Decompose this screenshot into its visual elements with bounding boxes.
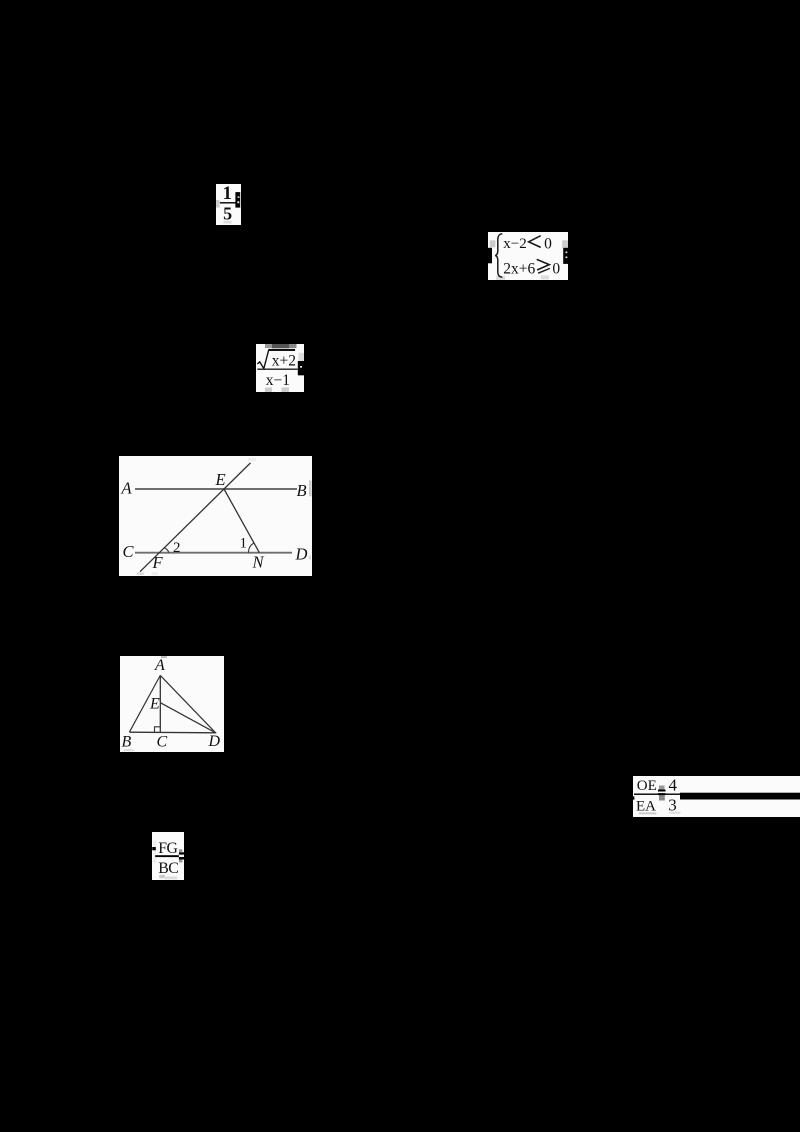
radical overline	[268, 349, 295, 351]
system of inequalities { x-2<0 ; 2x+6>=0 }	[488, 232, 569, 281]
svg-text:E: E	[149, 695, 160, 712]
angle 1 arc at N	[248, 543, 253, 553]
svg-text:E: E	[215, 470, 226, 489]
svg-text:FG: FG	[158, 840, 177, 857]
clipped character at left edge	[152, 847, 156, 850]
triangle diagram (A B C D E with right angle at C)	[120, 656, 224, 752]
svg-text:5: 5	[223, 204, 232, 224]
clipped character at left edge	[488, 247, 492, 262]
svg-text:C: C	[157, 733, 168, 750]
svg-text:OE: OE	[636, 778, 656, 794]
radical sign	[257, 350, 268, 369]
segment EN	[224, 489, 259, 553]
svg-text:0: 0	[552, 260, 560, 277]
svg-text:x+2: x+2	[271, 352, 295, 369]
right angle mark at C	[155, 727, 160, 732]
svg-text:0: 0	[544, 235, 552, 252]
equals sign at right edge	[178, 852, 184, 854]
svg-text:1: 1	[240, 535, 248, 551]
clipped character at right edge	[563, 247, 568, 263]
base BD	[129, 731, 216, 734]
svg-text:A: A	[154, 657, 165, 674]
fraction bar OE/EA	[634, 793, 680, 794]
sqrt(x+2)/(x-1)	[256, 344, 304, 392]
greater-or-equal sign	[536, 259, 549, 270]
altitude AC	[159, 675, 161, 732]
svg-text:N: N	[252, 552, 265, 571]
less-than sign	[528, 235, 540, 247]
angle 2 arc at F	[165, 547, 170, 552]
svg-text:BC: BC	[158, 860, 178, 877]
parallel lines diagram with transversal (A B C D E F N, angles 1 and 2)	[119, 456, 312, 576]
svg-text:1: 1	[223, 184, 232, 204]
svg-text:A: A	[121, 478, 133, 497]
svg-text:F: F	[152, 553, 164, 572]
long thick rule	[680, 792, 800, 799]
clipped character at right edge	[297, 361, 303, 375]
fraction bar	[220, 202, 236, 203]
FG/BC =	[152, 832, 185, 880]
svg-text:3: 3	[668, 795, 677, 814]
svg-text:x−2: x−2	[503, 235, 526, 251]
svg-text:D: D	[295, 544, 308, 563]
fraction bar	[257, 369, 298, 370]
svg-text:B: B	[122, 733, 132, 750]
svg-text:4: 4	[668, 776, 677, 794]
svg-text:x−1: x−1	[265, 372, 289, 389]
svg-text:EA: EA	[636, 798, 656, 814]
svg-text:2x+6: 2x+6	[503, 260, 535, 277]
svg-text:C: C	[123, 542, 135, 561]
line CD	[135, 551, 292, 553]
clipped character at right edge	[235, 192, 240, 208]
line AB	[135, 488, 297, 490]
segment ED	[160, 702, 215, 732]
fraction 1/5 (white formula box)	[216, 184, 241, 225]
OE/EA = 4/3 with long rule to page edge	[633, 776, 800, 818]
side AD	[160, 675, 215, 732]
svg-text:2: 2	[173, 540, 181, 556]
equals sign	[658, 789, 666, 791]
transversal through F and E	[140, 462, 251, 571]
fraction bar FG/BC	[155, 855, 179, 857]
svg-text:D: D	[207, 733, 220, 750]
svg-text:B: B	[297, 481, 307, 500]
side AB	[129, 675, 160, 732]
left curly brace	[495, 233, 502, 276]
